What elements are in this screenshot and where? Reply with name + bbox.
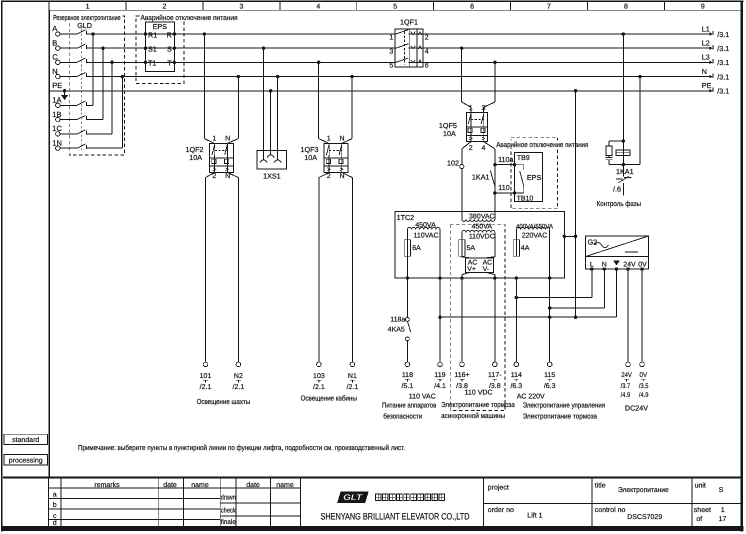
svg-text:3: 3 [239,4,243,11]
svg-text:S: S [167,45,172,54]
svg-text:d: d [53,519,57,527]
svg-text:17: 17 [719,516,727,523]
svg-text:Аварийное отключение питания: Аварийное отключение питания [141,13,238,22]
svg-text:110 VDC: 110 VDC [465,389,493,396]
svg-text:a: a [53,492,57,499]
svg-text:10A: 10A [443,129,456,138]
svg-text:4A: 4A [521,245,530,252]
svg-text:101: 101 [200,373,212,380]
svg-text:6A: 6A [412,245,421,252]
svg-text:/2.1: /2.1 [313,383,325,391]
svg-text:L3: L3 [702,53,710,62]
svg-text:4KA5: 4KA5 [388,326,405,333]
svg-text:DSCS7029: DSCS7029 [627,514,662,521]
svg-text:R: R [167,30,172,39]
svg-text:/2.1: /2.1 [200,383,212,391]
svg-text:N: N [702,67,707,76]
svg-text:/5.1: /5.1 [402,382,414,390]
svg-text:4: 4 [316,4,320,11]
svg-text:2: 2 [163,4,167,11]
svg-text:400VA/650VA: 400VA/650VA [516,224,554,231]
svg-text:L1: L1 [702,24,710,33]
svg-text:380VAC: 380VAC [469,214,495,221]
svg-text:finale: finale [221,518,236,526]
svg-text:check: check [221,506,236,514]
svg-text:Освещение шахты: Освещение шахты [197,397,251,406]
svg-text:4: 4 [482,145,486,152]
svg-text:/4.9: /4.9 [639,392,649,399]
svg-text:/.6: /.6 [613,184,621,193]
svg-text:EPS: EPS [527,173,542,182]
svg-text:116+: 116+ [454,372,469,379]
svg-text:117-: 117- [488,372,502,379]
svg-text:Аварийное отключение питания: Аварийное отключение питания [496,140,588,149]
svg-text:/3.1: /3.1 [717,44,729,53]
svg-text:processing: processing [9,456,43,464]
svg-text:114: 114 [511,372,522,379]
svg-text:3: 3 [389,49,393,56]
svg-text:1B: 1B [52,110,61,119]
svg-text:Электропитание управления: Электропитание управления [523,401,606,410]
svg-text:7: 7 [547,4,551,11]
svg-text:G2: G2 [588,238,598,247]
svg-text:/3.1: /3.1 [717,87,729,96]
svg-text:project: project [488,483,509,491]
svg-text:order no: order no [488,506,514,514]
svg-text:Питание аппаратов: Питание аппаратов [382,401,436,410]
svg-text:110VDC: 110VDC [469,233,495,240]
svg-text:DC24V: DC24V [625,403,648,412]
svg-text:1A: 1A [52,96,61,105]
svg-text:V-: V- [483,266,489,273]
svg-text:0V: 0V [640,372,648,379]
svg-text:drawn: drawn [221,493,236,501]
svg-text:8: 8 [624,4,628,11]
svg-text:1N: 1N [52,138,62,147]
svg-text:/3.7: /3.7 [621,383,631,390]
svg-text:Примечание: выберите пункты в: Примечание: выберите пункты в пунктирной… [78,443,405,452]
svg-text:/3.5: /3.5 [639,383,649,390]
svg-text:remarks: remarks [94,481,120,489]
svg-text:S1: S1 [148,45,157,54]
svg-text:V+: V+ [467,266,476,273]
svg-text:2: 2 [327,173,331,180]
svg-text:110 VAC: 110 VAC [409,393,436,400]
svg-text:T1: T1 [148,59,156,68]
svg-text:/2.1: /2.1 [233,383,245,391]
svg-text:103: 103 [313,373,325,380]
svg-text:1KA1: 1KA1 [616,167,634,176]
svg-text:/3.1: /3.1 [717,30,729,39]
svg-text:10A: 10A [189,153,202,162]
svg-text:1XS1: 1XS1 [263,172,281,181]
svg-text:2: 2 [469,145,473,152]
svg-text:Электропитание тормоза: Электропитание тормоза [523,411,597,420]
svg-text:unit: unit [695,481,706,489]
svg-text:118: 118 [402,372,413,379]
svg-text:TB10: TB10 [517,196,534,203]
svg-text:118a: 118a [390,316,405,323]
svg-text:0V: 0V [638,261,647,268]
svg-text:B: B [52,38,57,47]
svg-text:9: 9 [701,4,705,11]
svg-text:5: 5 [393,4,397,11]
svg-text:date: date [163,481,177,489]
svg-text:sheet: sheet [694,506,711,514]
svg-text:b: b [53,501,57,509]
svg-text:/6.3: /6.3 [510,382,522,390]
svg-text:N1: N1 [348,373,357,380]
svg-text:N2: N2 [234,373,243,380]
svg-text:119: 119 [434,372,445,379]
svg-text:110VAC: 110VAC [413,232,438,239]
svg-text:450VA: 450VA [415,222,436,229]
svg-text:date: date [246,481,260,489]
svg-text:c: c [53,513,57,520]
svg-text:1TC2: 1TC2 [397,213,415,222]
svg-text:T: T [167,59,172,68]
svg-text:1: 1 [86,4,90,11]
svg-text:10A: 10A [304,153,317,162]
svg-text:GLD: GLD [77,21,92,30]
svg-text:/4.9: /4.9 [621,392,631,399]
svg-text:6: 6 [470,4,474,11]
svg-text:S: S [719,487,724,494]
svg-text:2: 2 [425,34,429,41]
svg-text:асинхронной машины: асинхронной машины [441,411,505,420]
svg-text:AC 220V: AC 220V [517,393,545,400]
svg-text:102: 102 [447,158,459,167]
svg-text:SHENYANG BRILLIANT ELEVATOR: SHENYANG BRILLIANT ELEVATOR CO.,LTD [321,512,470,522]
svg-text:N: N [52,67,57,76]
svg-text:5A: 5A [467,245,476,252]
svg-text:24V: 24V [621,372,632,379]
svg-text:/3.1: /3.1 [717,58,729,67]
svg-text:GLT: GLT [343,493,363,502]
svg-text:1: 1 [721,507,725,514]
svg-text:1C: 1C [52,124,62,133]
svg-text:безопасности: безопасности [383,411,422,420]
svg-text:of: of [696,515,702,523]
svg-text:name: name [191,482,209,489]
svg-text:Освещение кабины: Освещение кабины [301,394,357,403]
svg-text:Электропитание тормоза: Электропитание тормоза [441,400,515,409]
svg-text:PE: PE [702,81,712,90]
svg-text:4: 4 [425,49,429,56]
svg-text:1: 1 [212,135,216,142]
svg-text:TB9: TB9 [517,155,530,162]
svg-text:/6.3: /6.3 [544,382,556,390]
svg-text:PE: PE [52,81,62,90]
svg-text:1: 1 [327,135,331,142]
svg-text:Электропитание: Электропитание [618,487,669,494]
svg-text:/2.1: /2.1 [347,383,359,391]
svg-text:1: 1 [389,34,393,41]
svg-text:5: 5 [389,63,393,70]
svg-text:220VAC: 220VAC [522,233,548,240]
svg-text:/4.1: /4.1 [434,382,446,390]
svg-text:N: N [340,135,345,142]
svg-text:110: 110 [498,183,509,192]
svg-text:name: name [276,482,294,489]
svg-text:Lift 1: Lift 1 [527,511,542,519]
svg-text:6: 6 [425,63,429,70]
svg-text:115: 115 [544,372,555,379]
svg-text:1QF1: 1QF1 [400,18,418,27]
svg-text:1KA1: 1KA1 [472,173,490,182]
svg-text:R1: R1 [148,30,157,39]
svg-text:C: C [52,53,58,62]
svg-text:standard: standard [12,436,39,444]
svg-text:title: title [595,481,606,489]
svg-text:L2: L2 [702,39,710,48]
svg-text:24V: 24V [623,261,636,268]
svg-text:Контроль фазы: Контроль фазы [597,199,642,208]
svg-text:N: N [225,135,230,142]
svg-text:control no: control no [595,506,626,514]
svg-text:/3.1: /3.1 [717,73,729,82]
svg-text:A: A [52,24,57,33]
